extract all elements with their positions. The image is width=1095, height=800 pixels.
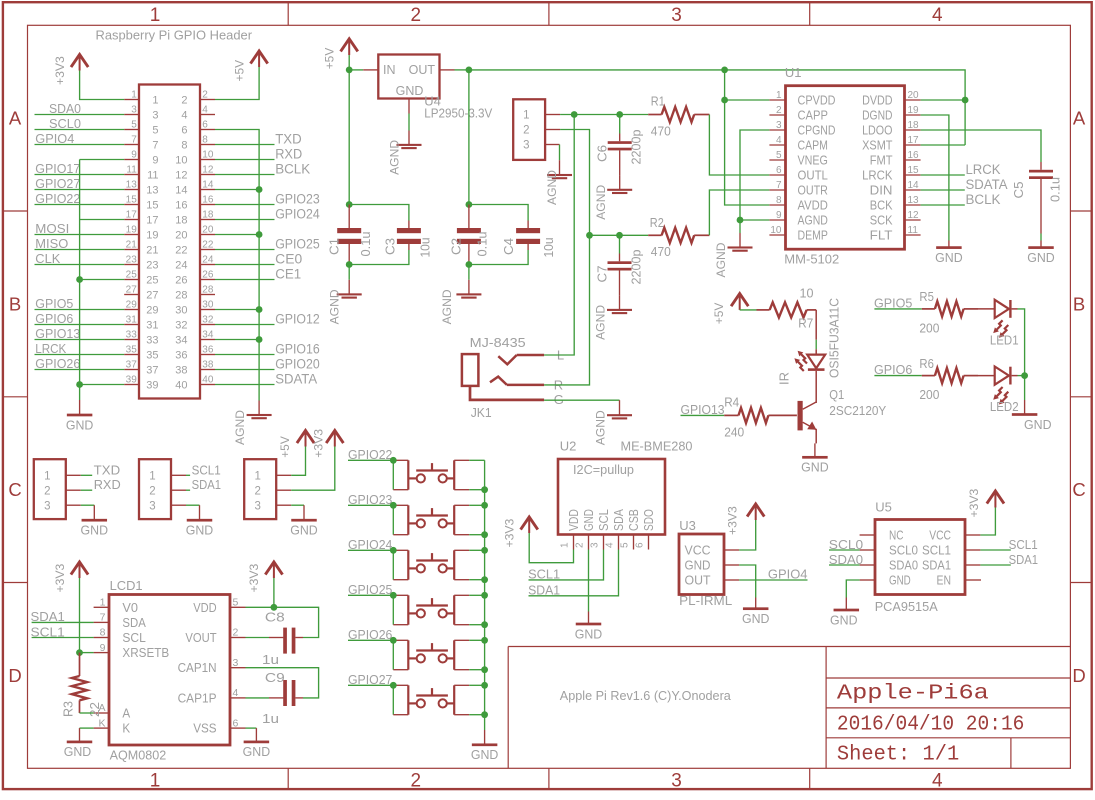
svg-text:6: 6 <box>776 165 782 176</box>
svg-text:21: 21 <box>146 245 158 257</box>
svg-text:39: 39 <box>126 375 138 386</box>
svg-text:DVDD: DVDD <box>862 93 892 108</box>
svg-text:MM-5102: MM-5102 <box>784 252 839 267</box>
svg-text:13: 13 <box>146 185 158 197</box>
svg-text:IR: IR <box>777 372 791 385</box>
svg-text:SCL: SCL <box>122 630 145 645</box>
svg-text:10: 10 <box>800 286 814 301</box>
svg-text:6: 6 <box>635 542 646 548</box>
junction button GPIO23 left <box>390 502 397 509</box>
svg-text:VDD: VDD <box>193 600 216 615</box>
svg-text:VCC: VCC <box>685 543 711 558</box>
wire U2 GND down <box>588 550 590 612</box>
junction LED GND node <box>1021 372 1028 379</box>
junction button bus top 2 <box>481 502 488 509</box>
junction header right bus y=189.5 <box>256 186 263 193</box>
svg-text:32: 32 <box>202 315 214 326</box>
svg-text:20: 20 <box>175 230 187 242</box>
wire Q1 emitter to GND <box>815 429 817 444</box>
ground AGND (jack) <box>619 400 621 415</box>
svg-text:OUT: OUT <box>409 63 436 77</box>
wire +3V3 horizontal rail <box>469 70 965 145</box>
svg-text:36: 36 <box>202 345 214 356</box>
svg-text:37: 37 <box>126 360 138 371</box>
svg-text:U1: U1 <box>785 65 802 80</box>
svg-text:SCL0: SCL0 <box>49 117 81 131</box>
ground AGND (U1) <box>739 233 741 248</box>
resistor R4 240 <box>724 395 797 440</box>
svg-text:V0: V0 <box>122 600 138 615</box>
power symbol +3V3 (LCD VDD) <box>273 563 275 578</box>
svg-text:7: 7 <box>131 135 137 146</box>
svg-text:1: 1 <box>523 110 529 122</box>
ground AGND (line out) <box>559 160 561 175</box>
net label GPIO22 (header left) <box>35 192 125 206</box>
net label GPIO24 (header right) <box>215 206 320 221</box>
net label SDA1 <box>186 477 221 492</box>
net label MISO (header left) <box>35 237 125 251</box>
junction button GPIO26 left <box>390 637 397 644</box>
junction U1 pin1 <box>721 97 728 104</box>
svg-text:0.1u: 0.1u <box>359 231 373 256</box>
svg-text:GPIO24: GPIO24 <box>348 538 392 552</box>
wire connector3 pin2 to +3V3 <box>291 447 335 491</box>
ground GND (U5) <box>845 598 847 611</box>
svg-text:GND: GND <box>66 417 94 432</box>
capacitor C6 2200p <box>596 115 644 176</box>
svg-text:+3V3: +3V3 <box>312 429 326 458</box>
svg-text:26: 26 <box>202 270 214 281</box>
net label GPIO16 (header right) <box>215 341 320 356</box>
svg-text:2: 2 <box>776 105 782 116</box>
frame row letters left <box>8 108 22 687</box>
svg-text:R1: R1 <box>651 94 665 109</box>
resistor R6 200 <box>919 356 978 402</box>
junction R2 row jack column <box>586 232 593 239</box>
regulator U4 LP2950-3.3V <box>363 55 492 121</box>
svg-text:31: 31 <box>146 320 158 332</box>
net label GPIO6 <box>874 363 922 377</box>
svg-text:MISO: MISO <box>35 237 68 251</box>
svg-text:23: 23 <box>126 255 138 266</box>
wire header right AGND bus <box>215 130 259 401</box>
svg-text:C8: C8 <box>265 609 285 624</box>
svg-text:470: 470 <box>651 124 671 139</box>
svg-text:A: A <box>9 108 22 129</box>
svg-text:G: G <box>554 392 564 407</box>
ground GND (header left) <box>79 400 81 415</box>
ground AGND (C1/C3) <box>348 280 350 295</box>
wire C1 bottom rail <box>349 250 409 265</box>
svg-text:20: 20 <box>202 225 214 236</box>
svg-text:27: 27 <box>146 290 158 302</box>
svg-text:SDO: SDO <box>642 509 656 531</box>
svg-text:3: 3 <box>131 105 137 116</box>
net label TXD <box>81 462 120 477</box>
LED IR OSI5FU3A11C <box>777 298 841 385</box>
net label CE0 (header right) <box>215 251 302 266</box>
svg-text:A: A <box>1073 108 1086 129</box>
svg-text:2: 2 <box>233 627 239 639</box>
svg-text:11: 11 <box>908 225 919 236</box>
net label GPIO6 (header left) <box>35 312 125 326</box>
svg-text:5: 5 <box>620 542 631 548</box>
wire U1 DGND to GND <box>921 115 949 241</box>
net label SCL0 (U5) <box>829 538 863 552</box>
connector 3-pin #3 (bottom) <box>244 459 291 519</box>
svg-text:22: 22 <box>202 240 214 251</box>
junction button bus bottom 1 <box>481 486 488 493</box>
svg-text:2: 2 <box>181 95 187 107</box>
svg-text:+3V3: +3V3 <box>53 563 67 592</box>
IC U2 ME-BME280 body <box>558 439 693 550</box>
net label GPIO27 (button) <box>348 673 393 687</box>
net label GPIO20 (header right) <box>215 356 320 371</box>
svg-text:D: D <box>8 665 21 686</box>
svg-text:GPIO26: GPIO26 <box>35 357 80 371</box>
svg-text:C2: C2 <box>450 238 464 255</box>
wire U2 VDD to +3V3 <box>529 533 573 563</box>
title note box <box>508 647 1070 769</box>
net label RXD <box>81 477 121 492</box>
frame column numbers top <box>150 5 943 26</box>
svg-text:AGND: AGND <box>545 170 559 205</box>
capacitor C8 1u <box>246 609 304 667</box>
svg-text:CE1: CE1 <box>275 266 301 281</box>
net label SDA0 (header left) <box>35 102 125 116</box>
capacitor C3 10u <box>384 221 433 258</box>
wire VDD node <box>246 606 274 608</box>
svg-text:LRCK: LRCK <box>966 162 1001 177</box>
net label CE1 (header right) <box>215 266 301 281</box>
svg-text:12: 12 <box>202 165 214 176</box>
svg-text:16: 16 <box>908 150 920 161</box>
svg-text:200: 200 <box>919 387 939 402</box>
power symbol +3V3 (header pin1) <box>79 56 81 71</box>
wire +3V3 down to XRSETB node <box>79 578 81 653</box>
svg-text:6: 6 <box>233 717 239 729</box>
power symbol +3V3 (connector 3) <box>334 432 336 447</box>
net label GPIO26 (header left) <box>35 357 125 371</box>
svg-text:9: 9 <box>776 210 782 221</box>
net label GPIO24 (button) <box>348 538 393 552</box>
junction XRSETB <box>76 649 83 656</box>
svg-text:SDATA: SDATA <box>275 371 317 386</box>
wire U5 VCC to +3V3 <box>980 508 995 536</box>
net label GPIO13 <box>681 403 725 417</box>
svg-text:+5V: +5V <box>323 47 337 69</box>
svg-text:29: 29 <box>146 305 158 317</box>
junction button GPIO27 left <box>390 682 397 689</box>
svg-text:R7: R7 <box>798 316 813 331</box>
svg-text:GND: GND <box>396 84 424 98</box>
svg-text:7: 7 <box>776 180 782 191</box>
svg-text:2200p: 2200p <box>630 129 644 164</box>
wire jack G <box>544 399 619 401</box>
svg-text:8: 8 <box>100 627 106 639</box>
wire LED node to GND <box>1024 376 1026 400</box>
ground GND (connector #2) <box>199 505 201 520</box>
net label GPIO25 (header right) <box>215 236 320 251</box>
ground GND (C5) <box>1040 241 1042 248</box>
svg-text:MOSI: MOSI <box>35 222 69 236</box>
svg-text:XRSETB: XRSETB <box>122 645 169 660</box>
svg-text:14: 14 <box>175 185 187 197</box>
wire XRSETB node <box>80 652 94 654</box>
svg-text:7: 7 <box>152 140 158 152</box>
svg-text:R3: R3 <box>62 701 76 717</box>
net label SDA1 (U2) <box>528 550 618 598</box>
svg-text:25: 25 <box>146 275 158 287</box>
svg-text:4: 4 <box>932 770 943 791</box>
svg-text:BCLK: BCLK <box>275 161 310 176</box>
svg-text:2200p: 2200p <box>630 249 644 284</box>
junction button bus bottom 4 <box>481 621 488 628</box>
junction button GPIO24 left <box>390 547 397 554</box>
svg-text:GPIO22: GPIO22 <box>35 192 80 206</box>
svg-text:SDA1: SDA1 <box>31 610 65 624</box>
junction button bus bottom 5 <box>481 666 488 673</box>
net label GPIO23 (button) <box>348 493 393 507</box>
svg-text:2: 2 <box>523 125 529 137</box>
svg-text:CAPM: CAPM <box>798 138 828 153</box>
svg-text:SCL0: SCL0 <box>829 538 863 552</box>
svg-text:RXD: RXD <box>94 477 121 492</box>
svg-text:3: 3 <box>671 770 682 791</box>
wire U4 OUT to +3V3 rail <box>455 69 469 71</box>
wire OUT down to C2 rail <box>468 70 470 205</box>
svg-text:18: 18 <box>202 210 214 221</box>
svg-text:19: 19 <box>908 105 920 116</box>
svg-text:Apple-Pi6a: Apple-Pi6a <box>837 682 989 705</box>
IC LCD1 AQM0802 body <box>94 578 246 763</box>
net label GPIO5 (header left) <box>35 297 125 311</box>
wire +3V3 to U1 CPVDD and AVDD <box>725 70 770 205</box>
svg-text:GPIO6: GPIO6 <box>874 363 912 377</box>
wire +5V to U4 IN <box>348 55 350 70</box>
svg-text:Q1: Q1 <box>829 387 844 402</box>
svg-text:34: 34 <box>175 335 187 347</box>
junction button bus bottom 6 <box>481 711 488 718</box>
power symbol +3V3 (LCD) <box>79 563 81 578</box>
svg-text:17: 17 <box>126 210 138 221</box>
wire VSS to GND <box>246 727 257 729</box>
svg-text:4: 4 <box>932 5 943 26</box>
svg-text:Raspberry Pi GPIO Header: Raspberry Pi GPIO Header <box>96 28 253 43</box>
svg-text:5: 5 <box>776 150 782 161</box>
resistor R3 22 <box>62 653 102 717</box>
svg-text:R4: R4 <box>724 395 739 410</box>
svg-text:5: 5 <box>131 120 137 131</box>
svg-text:8: 8 <box>202 135 208 146</box>
svg-text:37: 37 <box>146 365 158 377</box>
svg-text:+5V: +5V <box>712 302 726 324</box>
svg-text:GPIO23: GPIO23 <box>275 191 320 206</box>
wire connector pin2 (R) down <box>560 130 589 236</box>
svg-text:10: 10 <box>202 150 214 161</box>
svg-text:35: 35 <box>126 345 138 356</box>
svg-text:AGND: AGND <box>233 410 247 445</box>
svg-text:28: 28 <box>202 285 214 296</box>
connector CN1 Raspberry Pi GPIO header body <box>124 85 215 399</box>
svg-text:GPIO25: GPIO25 <box>348 583 392 597</box>
svg-text:U5: U5 <box>875 500 892 515</box>
net label SCL1 (U5 right) <box>980 538 1037 552</box>
svg-text:5: 5 <box>233 597 239 609</box>
svg-text:3: 3 <box>254 500 260 512</box>
svg-text:GPIO5: GPIO5 <box>874 296 912 310</box>
svg-text:1: 1 <box>776 90 782 101</box>
svg-text:40: 40 <box>175 380 187 392</box>
wire connector pin1 (L) <box>560 114 620 116</box>
capacitor C4 10u <box>502 221 556 258</box>
wire C2 top rail <box>469 205 528 221</box>
switch S3 push button <box>393 550 484 579</box>
svg-text:0.1u: 0.1u <box>476 231 490 256</box>
switch S5 push button <box>393 640 484 669</box>
svg-text:GND: GND <box>81 523 109 538</box>
net label SDA1 (U5 right) <box>980 553 1038 567</box>
junction VDD <box>271 604 278 611</box>
svg-text:+5V: +5V <box>232 59 246 81</box>
svg-text:DGND: DGND <box>862 108 892 123</box>
svg-text:9: 9 <box>131 150 137 161</box>
power symbol +3V3 (U2) <box>528 518 530 533</box>
junction button GPIO22 left <box>390 457 397 464</box>
svg-text:35: 35 <box>146 350 158 362</box>
svg-text:+3V3: +3V3 <box>53 56 67 85</box>
svg-text:2SC2120Y: 2SC2120Y <box>829 403 886 418</box>
svg-text:TXD: TXD <box>94 462 121 477</box>
svg-text:OUTR: OUTR <box>798 183 828 198</box>
svg-text:0.1u: 0.1u <box>1049 177 1063 202</box>
transistor Q1 2SC2120Y <box>798 387 887 430</box>
svg-text:GPIO27: GPIO27 <box>348 673 392 687</box>
svg-text:C5: C5 <box>1012 181 1026 198</box>
svg-text:GND: GND <box>471 747 499 762</box>
switch S4 push button <box>393 595 484 624</box>
svg-text:GND: GND <box>1024 417 1052 432</box>
svg-text:36: 36 <box>175 350 187 362</box>
svg-text:27: 27 <box>126 285 138 296</box>
svg-text:AGND: AGND <box>594 410 608 445</box>
ground GND (U3) <box>755 598 757 609</box>
junction header bus pin25 <box>76 276 83 283</box>
junction header bus pin39 <box>76 381 83 388</box>
wire U1 DVDD/XSMT to +3V3 <box>921 100 966 145</box>
svg-text:LRCK: LRCK <box>862 168 893 183</box>
connector 3-pin #1 (bottom) <box>34 459 81 519</box>
ground GND (LCD K) <box>79 728 81 742</box>
svg-text:GPIO20: GPIO20 <box>275 356 320 371</box>
net label SDA1 (LCD) <box>31 610 94 624</box>
junction L / C6 column <box>616 111 623 118</box>
svg-text:33: 33 <box>126 330 138 341</box>
svg-text:14: 14 <box>908 180 920 191</box>
junction header right bus y=339.5 <box>256 336 263 343</box>
svg-text:8: 8 <box>181 140 187 152</box>
svg-text:A: A <box>122 706 130 721</box>
svg-text:GPIO12: GPIO12 <box>275 311 320 326</box>
wire R3 to LCD A <box>80 712 94 714</box>
svg-text:GND: GND <box>582 509 596 531</box>
svg-text:4: 4 <box>605 542 616 548</box>
svg-text:16: 16 <box>175 200 187 212</box>
svg-text:ME-BME280: ME-BME280 <box>621 439 693 454</box>
svg-text:1: 1 <box>150 770 161 791</box>
svg-text:4: 4 <box>233 687 239 699</box>
svg-text:20: 20 <box>908 90 920 101</box>
svg-text:15: 15 <box>146 200 158 212</box>
svg-text:6: 6 <box>202 120 208 131</box>
junction C2 top rail <box>466 201 473 208</box>
svg-text:CSB: CSB <box>627 509 641 531</box>
svg-text:OSI5FU3A11C: OSI5FU3A11C <box>828 298 842 378</box>
svg-text:GPIO27: GPIO27 <box>35 177 80 191</box>
wire C2 bottom rail <box>469 250 528 265</box>
svg-text:SDA1: SDA1 <box>528 583 560 597</box>
svg-text:GPIO4: GPIO4 <box>768 568 808 582</box>
svg-text:3: 3 <box>671 5 682 26</box>
wire R7 to IR LED <box>815 310 817 355</box>
junction button bus top 5 <box>481 637 488 644</box>
svg-text:VSS: VSS <box>193 721 217 736</box>
svg-text:AGND: AGND <box>594 185 608 220</box>
svg-text:MJ-8435: MJ-8435 <box>470 335 526 350</box>
svg-text:13: 13 <box>126 180 138 191</box>
svg-text:CAPP: CAPP <box>798 108 828 123</box>
junction header right bus y=309.5 <box>256 306 263 313</box>
net label SCL1 (U2) <box>528 550 603 582</box>
svg-text:SCL1: SCL1 <box>922 543 951 558</box>
svg-text:14: 14 <box>202 180 214 191</box>
svg-text:+3V3: +3V3 <box>967 488 981 517</box>
wire C1 top rail <box>349 205 409 221</box>
LED LED1 <box>978 300 1019 348</box>
wire IR LED cathode to Q1 collector <box>815 371 817 403</box>
svg-text:11: 11 <box>147 170 158 182</box>
svg-text:PL-IRML: PL-IRML <box>679 593 732 608</box>
svg-text:+3V3: +3V3 <box>503 518 517 547</box>
svg-text:17: 17 <box>146 215 158 227</box>
svg-text:GPIO25: GPIO25 <box>275 236 320 251</box>
power symbol +5V (U4 input) <box>348 40 350 55</box>
net label RXD (header right) <box>215 146 302 161</box>
wire C2 rail to AGND <box>468 265 470 280</box>
svg-text:11: 11 <box>126 165 137 176</box>
svg-text:AQM0802: AQM0802 <box>110 748 167 763</box>
svg-text:40: 40 <box>202 375 214 386</box>
svg-text:FLT: FLT <box>870 228 893 243</box>
svg-text:CAP1P: CAP1P <box>178 690 217 705</box>
svg-text:9: 9 <box>100 642 106 654</box>
wire jack L <box>544 115 574 356</box>
svg-text:LRCK: LRCK <box>35 342 67 356</box>
svg-text:26: 26 <box>175 275 187 287</box>
junction header right bus y=234.5 <box>256 231 263 238</box>
junction L / jack column <box>571 111 578 118</box>
svg-text:BCLK: BCLK <box>966 192 1001 207</box>
svg-text:17: 17 <box>908 135 920 146</box>
net label SDA0 (U5) <box>829 553 863 567</box>
svg-text:LDOO: LDOO <box>862 123 892 138</box>
frame column numbers bottom <box>150 770 943 791</box>
svg-text:4: 4 <box>202 105 208 116</box>
wire connector pin3 to GND <box>81 504 95 506</box>
svg-text:12: 12 <box>908 210 920 221</box>
svg-text:22: 22 <box>88 702 102 717</box>
svg-text:3: 3 <box>590 542 601 548</box>
